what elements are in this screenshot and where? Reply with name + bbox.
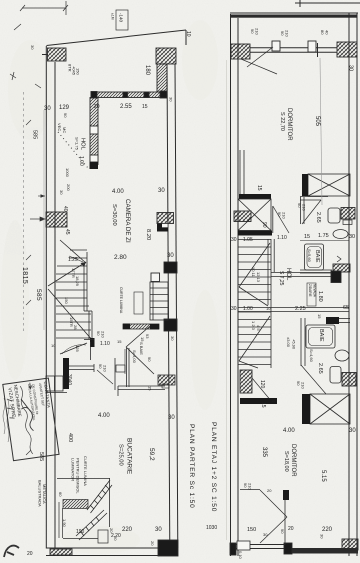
- svg-text:585: 585: [38, 452, 44, 461]
- svg-text:1030: 1030: [206, 525, 217, 531]
- svg-text:150: 150: [247, 527, 256, 533]
- svg-text:DORMITOR: DORMITOR: [290, 444, 296, 477]
- svg-text:MC: MC: [62, 127, 67, 133]
- svg-text:1 2 3: 1 2 3: [251, 321, 256, 331]
- svg-text:PLAN PARTER Sc 1:50: PLAN PARTER Sc 1:50: [188, 424, 195, 509]
- svg-text:15: 15: [304, 234, 310, 240]
- svg-text:10: 10: [185, 31, 191, 37]
- svg-text:4.00: 4.00: [98, 413, 110, 419]
- svg-text:BAIE: BAIE: [314, 250, 320, 263]
- svg-text:LUMINATOR: LUMINATOR: [71, 458, 76, 481]
- svg-text:S=18,00: S=18,00: [283, 451, 289, 472]
- svg-text:DORMITOR: DORMITOR: [286, 108, 292, 141]
- svg-text:30: 30: [59, 190, 64, 195]
- svg-text:30: 30: [320, 534, 325, 539]
- svg-text:10 11: 10 11: [251, 267, 256, 277]
- svg-text:30: 30: [155, 527, 162, 533]
- svg-text:90: 90: [98, 364, 103, 369]
- svg-text:PENTRU DEMISOL: PENTRU DEMISOL: [76, 458, 81, 494]
- svg-text:15: 15: [117, 339, 122, 344]
- svg-text:1.75: 1.75: [318, 233, 329, 239]
- svg-text:S=3,00: S=3,00: [132, 350, 137, 364]
- svg-text:1.90: 1.90: [62, 519, 67, 528]
- svg-text:0.10: 0.10: [238, 551, 243, 560]
- svg-text:BUCATARIE: BUCATARIE: [126, 438, 133, 475]
- svg-text:90: 90: [280, 529, 285, 534]
- svg-text:S=4,60: S=4,60: [309, 349, 314, 363]
- svg-text:12 13: 12 13: [256, 272, 261, 283]
- svg-text:30: 30: [170, 336, 175, 341]
- svg-text:2.20: 2.20: [111, 533, 121, 539]
- svg-text:129: 129: [59, 105, 70, 111]
- svg-text:585: 585: [35, 289, 42, 301]
- svg-text:90: 90: [277, 212, 282, 217]
- svg-text:30: 30: [158, 188, 165, 194]
- svg-text:CURTE LUMINA: CURTE LUMINA: [119, 287, 123, 314]
- svg-text:15: 15: [271, 398, 276, 403]
- svg-text:20: 20: [27, 551, 33, 557]
- svg-text:4.00: 4.00: [283, 428, 295, 434]
- svg-text:20: 20: [267, 488, 272, 493]
- svg-text:210: 210: [302, 204, 307, 211]
- svg-text:1.05: 1.05: [243, 237, 253, 243]
- svg-text:90: 90: [250, 29, 255, 34]
- svg-text:30: 30: [231, 306, 237, 312]
- svg-text:90: 90: [243, 483, 248, 488]
- svg-text:40: 40: [62, 206, 68, 212]
- svg-text:45: 45: [64, 229, 70, 235]
- svg-text:210: 210: [248, 483, 253, 490]
- svg-text:40: 40: [325, 30, 330, 35]
- svg-text:1.25: 1.25: [68, 257, 78, 263]
- svg-text:15: 15: [148, 386, 153, 391]
- svg-text:30: 30: [231, 237, 237, 243]
- svg-text:VEC: VEC: [57, 123, 62, 131]
- svg-text:65: 65: [343, 305, 349, 311]
- svg-text:30: 30: [44, 106, 51, 112]
- svg-text:30: 30: [263, 532, 268, 537]
- svg-text:90: 90: [297, 203, 302, 208]
- svg-text:210: 210: [103, 365, 108, 372]
- svg-text:505: 505: [314, 116, 320, 127]
- svg-text:S=25,00: S=25,00: [118, 444, 124, 466]
- svg-text:2.80: 2.80: [114, 254, 127, 261]
- svg-text:10: 10: [51, 343, 56, 348]
- svg-text:335: 335: [261, 447, 267, 458]
- svg-text:30: 30: [349, 234, 355, 240]
- svg-text:125: 125: [75, 345, 80, 352]
- svg-text:S=1,75: S=1,75: [75, 137, 80, 151]
- svg-text:NEVADA: NEVADA: [313, 284, 317, 298]
- svg-text:S 7,25: S 7,25: [278, 271, 284, 286]
- svg-text:18,29: 18,29: [75, 276, 80, 287]
- svg-text:90: 90: [63, 113, 68, 118]
- svg-text:2.25: 2.25: [295, 306, 306, 312]
- svg-text:28: 28: [73, 325, 78, 330]
- svg-text:S=30,00: S=30,00: [111, 204, 117, 226]
- svg-text:±1M: ±1M: [111, 13, 115, 20]
- svg-text:90: 90: [147, 357, 152, 362]
- svg-text:150: 150: [64, 297, 69, 304]
- svg-text:CURTE LUMINA: CURTE LUMINA: [83, 456, 88, 486]
- svg-text:15: 15: [317, 314, 322, 319]
- svg-text:20: 20: [94, 104, 100, 110]
- svg-text:90: 90: [261, 222, 267, 228]
- svg-text:1000: 1000: [65, 168, 70, 178]
- svg-text:59,2: 59,2: [148, 448, 155, 461]
- svg-text:120: 120: [259, 380, 265, 389]
- svg-text:150: 150: [76, 68, 81, 75]
- svg-text:30: 30: [349, 428, 356, 434]
- svg-text:30: 30: [167, 253, 174, 259]
- svg-text:3040: 3040: [66, 374, 72, 385]
- svg-text:400: 400: [67, 433, 73, 442]
- svg-text:±3.00: ±3.00: [286, 337, 291, 348]
- svg-text:20: 20: [288, 526, 294, 532]
- svg-text:80: 80: [320, 30, 325, 35]
- svg-text:2.55: 2.55: [120, 104, 132, 110]
- svg-text:210: 210: [285, 30, 290, 37]
- svg-text:200: 200: [66, 184, 71, 191]
- svg-text:4 5: 4 5: [256, 325, 261, 331]
- svg-text:1.80: 1.80: [317, 291, 323, 302]
- svg-text:BALUSTRADA: BALUSTRADA: [38, 480, 43, 507]
- svg-text:90: 90: [96, 331, 101, 336]
- svg-text:30: 30: [30, 45, 35, 50]
- svg-text:2.65: 2.65: [317, 363, 323, 374]
- svg-text:1815: 1815: [21, 267, 28, 284]
- svg-text:15: 15: [256, 185, 262, 191]
- svg-text:-140: -140: [119, 13, 124, 23]
- svg-text:180: 180: [144, 65, 150, 76]
- svg-text:S 22,70: S 22,70: [279, 112, 285, 131]
- svg-text:4.00: 4.00: [112, 189, 124, 195]
- svg-text:1.00: 1.00: [243, 306, 253, 312]
- svg-text:8.20: 8.20: [145, 229, 151, 240]
- svg-text:ZIDARIE: ZIDARIE: [308, 284, 312, 297]
- svg-text:HOL: HOL: [285, 268, 291, 281]
- svg-text:220: 220: [322, 527, 333, 533]
- svg-text:METALICA: METALICA: [42, 484, 47, 504]
- svg-text:90: 90: [280, 31, 285, 36]
- svg-text:90: 90: [296, 381, 301, 386]
- svg-text:60: 60: [58, 492, 63, 497]
- svg-text:210: 210: [301, 382, 306, 389]
- svg-text:2.65: 2.65: [315, 212, 321, 223]
- svg-text:220: 220: [122, 527, 133, 533]
- svg-text:BAIE: BAIE: [318, 329, 324, 342]
- svg-text:210: 210: [282, 212, 287, 219]
- svg-text:1.00: 1.00: [78, 156, 84, 166]
- svg-text:20: 20: [150, 541, 155, 546]
- svg-text:210: 210: [101, 331, 106, 338]
- svg-text:15: 15: [260, 402, 266, 408]
- svg-text:15: 15: [142, 104, 148, 110]
- svg-text:1.10: 1.10: [100, 341, 110, 347]
- svg-text:S BAIE: S BAIE: [139, 342, 144, 355]
- svg-text:PLAN ETAJ 1+2 SC 1:50: PLAN ETAJ 1+2 SC 1:50: [210, 422, 217, 512]
- svg-text:10: 10: [266, 306, 271, 311]
- svg-text:30: 30: [348, 65, 354, 71]
- svg-text:210: 210: [255, 28, 260, 35]
- svg-text:5.15: 5.15: [320, 470, 326, 482]
- svg-text:30: 30: [168, 415, 175, 421]
- svg-text:+5,90: +5,90: [292, 339, 297, 350]
- svg-text:585: 585: [32, 130, 38, 139]
- svg-text:30: 30: [169, 97, 174, 102]
- svg-text:190: 190: [76, 529, 85, 535]
- svg-text:S=5,60: S=5,60: [307, 249, 312, 263]
- svg-text:CAMERA DE ZI: CAMERA DE ZI: [124, 199, 131, 243]
- svg-text:1.10: 1.10: [277, 235, 287, 241]
